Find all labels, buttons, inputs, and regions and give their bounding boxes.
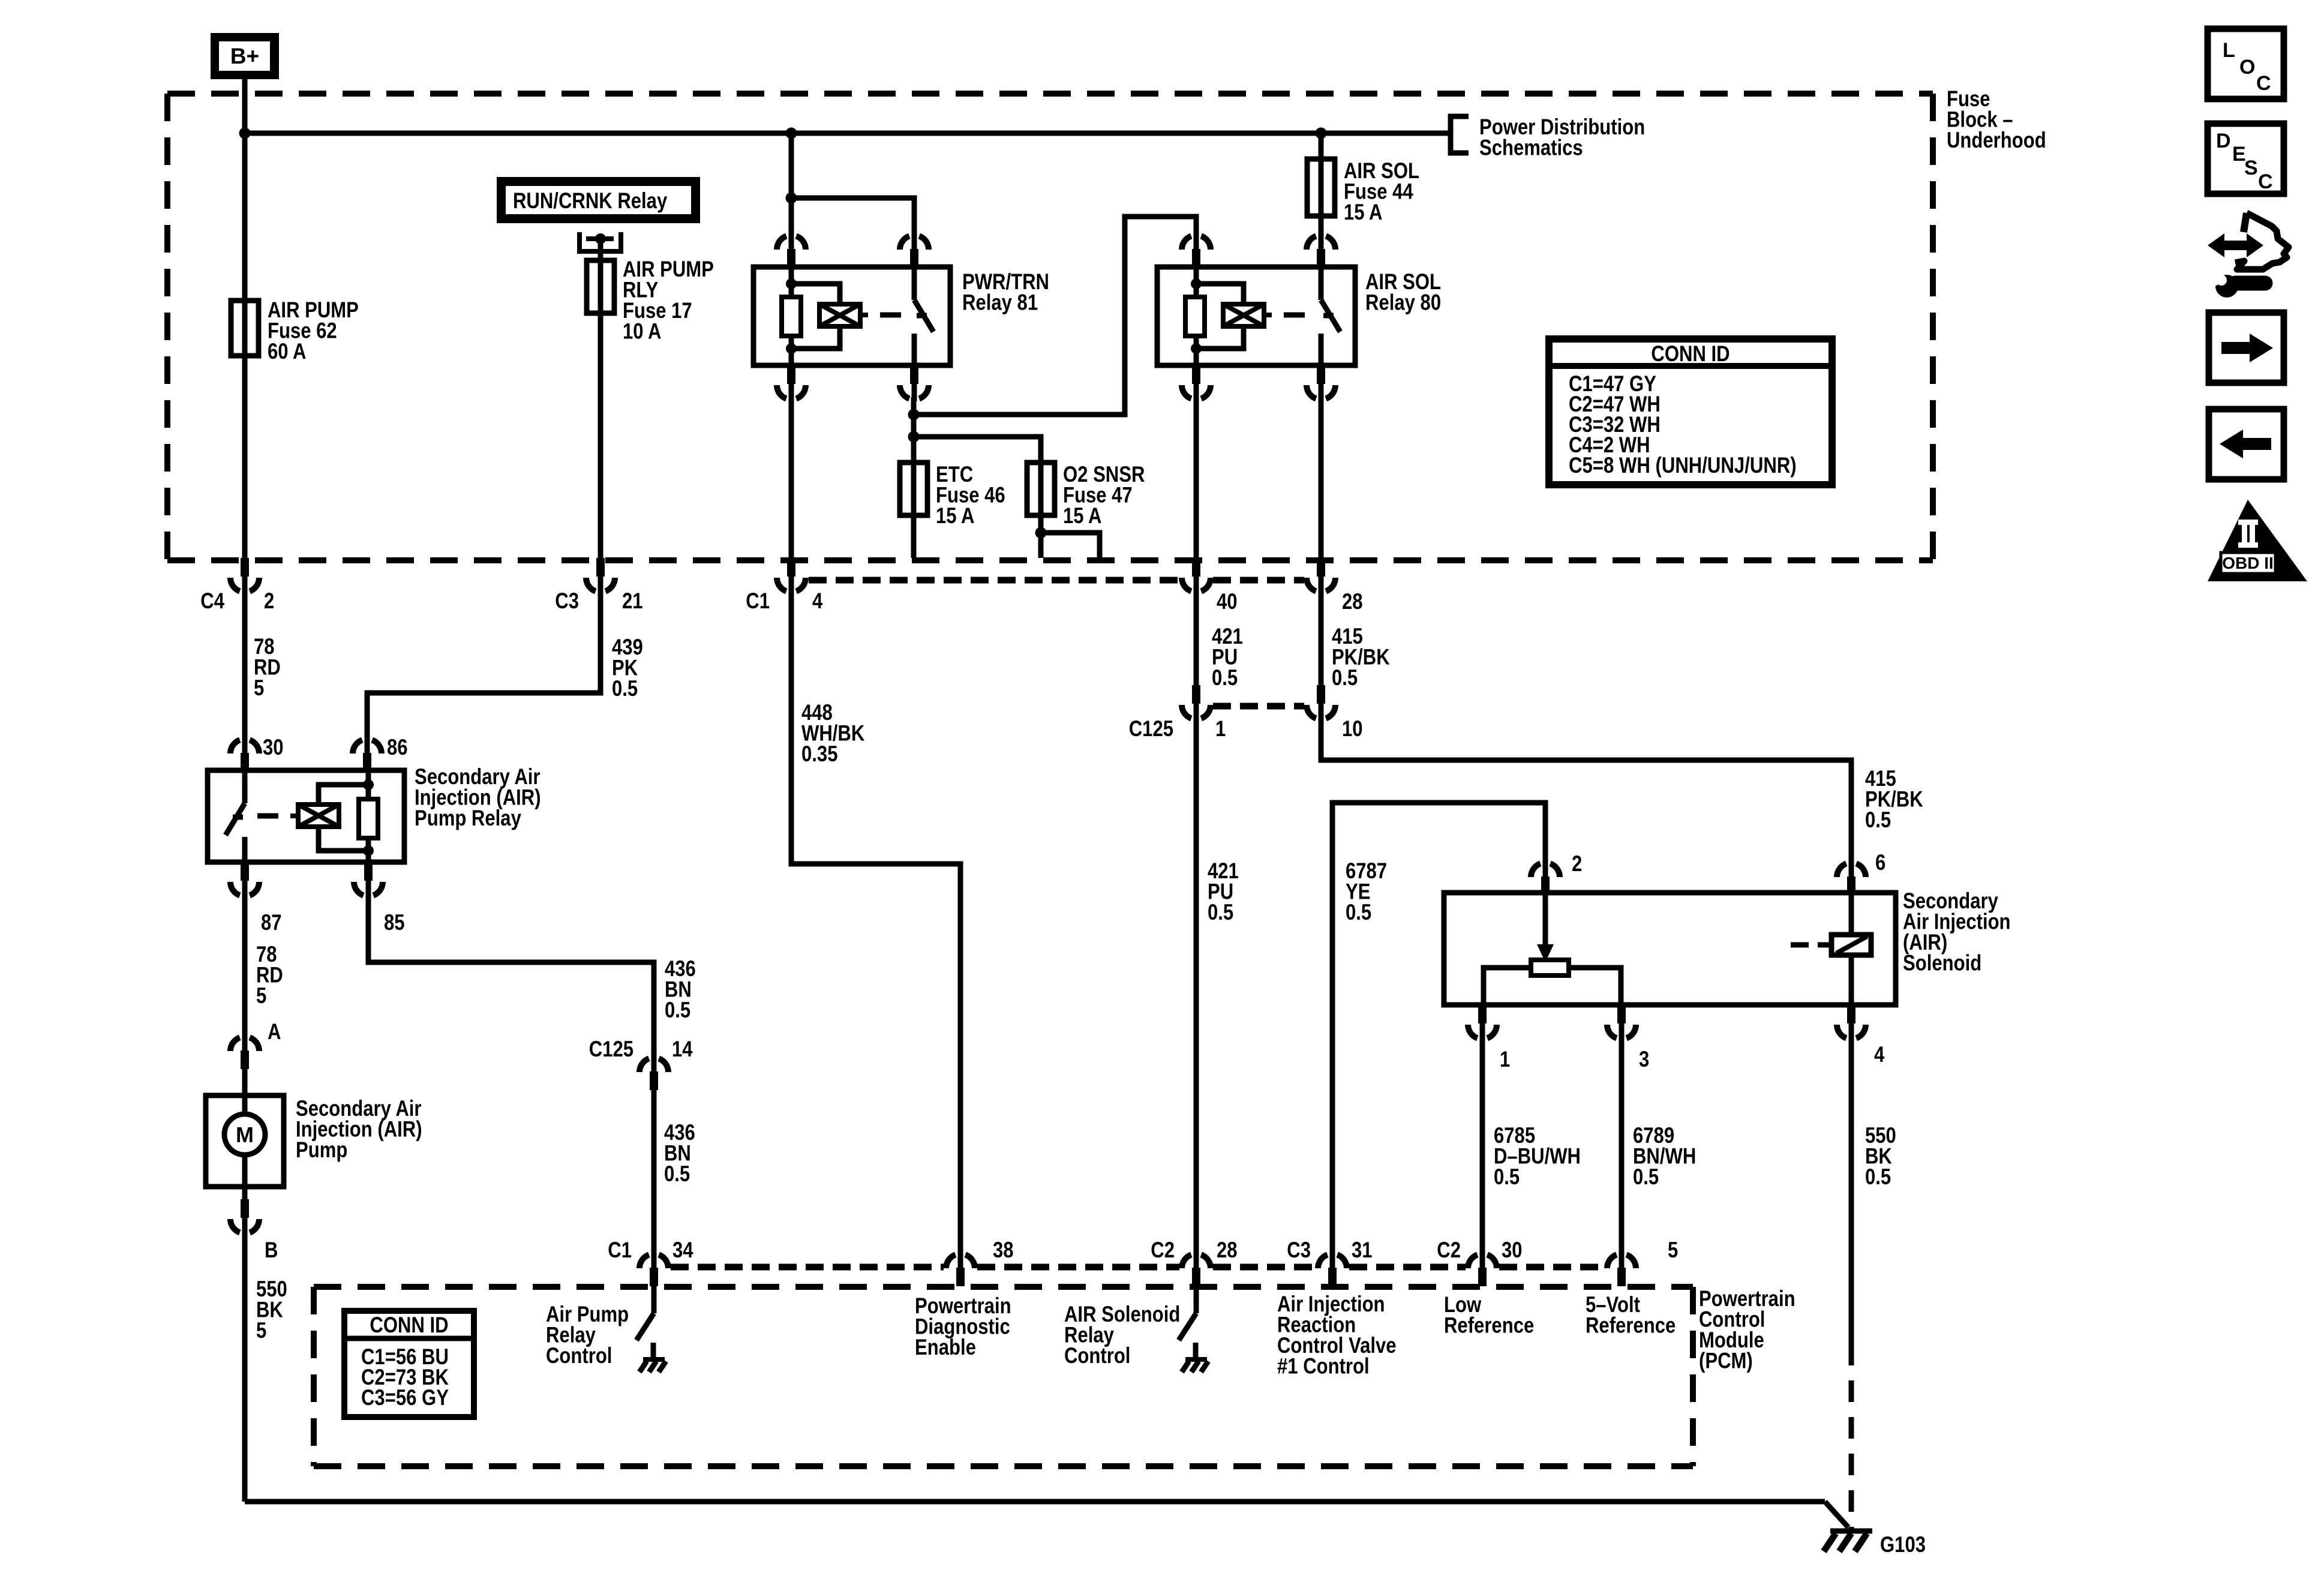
table CONN ID PCM bbox=[344, 1311, 474, 1417]
wire 448 WH/BK from C1-4 to PCM pin 38 bbox=[791, 590, 960, 1253]
svg-text:21: 21 bbox=[622, 589, 643, 614]
wire fuse 44 to relay 80 switch pin bbox=[1319, 216, 1324, 235]
connector C125 pin 1 bbox=[1182, 685, 1211, 721]
node B+ bbox=[211, 33, 279, 79]
fuse holder bracket bbox=[580, 232, 621, 251]
fuse F44 AIR SOL 15 A bbox=[1307, 159, 1335, 216]
pin relay81 coil bottom connector bbox=[777, 365, 806, 401]
wire pin 40 to C125-1 (421 PU) bbox=[1194, 590, 1199, 685]
wire solenoid pin 4 to G103 (550 BK) bbox=[1849, 1037, 1854, 1344]
svg-text:C1: C1 bbox=[608, 1238, 632, 1263]
svg-text:28: 28 bbox=[1217, 1238, 1238, 1263]
connector C4 pin 2 bbox=[230, 558, 259, 594]
svg-text:3: 3 bbox=[1639, 1047, 1649, 1072]
svg-text:S: S bbox=[2244, 157, 2258, 179]
wire branch fuse 47 step bbox=[1041, 533, 1100, 558]
coil relay80 (valve box with X) bbox=[1223, 304, 1272, 326]
icon back arrow box bbox=[2209, 409, 2284, 479]
connector solenoid pin 6 bbox=[1837, 861, 1866, 895]
node junction fuse 47 out bbox=[1035, 527, 1047, 539]
svg-text:38: 38 bbox=[993, 1238, 1014, 1263]
wire connector A to pump bbox=[242, 1068, 248, 1113]
banner RUN/CRNK Relay bbox=[497, 177, 700, 223]
connector C125 pin 10 bbox=[1307, 685, 1335, 721]
icon LOC box bbox=[2208, 29, 2284, 99]
svg-text:2: 2 bbox=[264, 589, 274, 614]
pin relay80 coil top connector bbox=[1182, 233, 1211, 268]
pump relay coil loop bbox=[319, 785, 368, 804]
connector C3 pin 21 bbox=[586, 558, 615, 594]
PCM internal switch pin 28 bbox=[1179, 1286, 1196, 1357]
svg-text:40: 40 bbox=[1217, 590, 1238, 614]
connector A pump bbox=[230, 1035, 259, 1069]
relay81 switch bbox=[914, 267, 933, 365]
relay U81 PWR/TRN box bbox=[753, 267, 950, 365]
connector solenoid pin 3 bbox=[1607, 1005, 1636, 1041]
svg-text:C: C bbox=[2258, 170, 2273, 193]
node junction B+ rail bbox=[239, 128, 251, 139]
node pump relay coil bottom junction bbox=[363, 845, 374, 856]
wire B+ down to fuse 62 and C4 connector bbox=[242, 79, 248, 558]
pin relay81 coil top connector bbox=[777, 233, 806, 268]
svg-text:D: D bbox=[2216, 130, 2231, 152]
svg-text:A: A bbox=[268, 1020, 281, 1044]
relay81 linkage dash bbox=[880, 313, 901, 318]
svg-text:30: 30 bbox=[1502, 1238, 1523, 1263]
ground G103 bbox=[1824, 1531, 1872, 1551]
connector PCM C2 pin 30 bbox=[1468, 1252, 1497, 1286]
svg-text:14: 14 bbox=[672, 1037, 693, 1062]
wire pump B to ground rail (550 BK) bbox=[242, 1231, 248, 1502]
wire branch to AIR SOL relay coil feed bbox=[914, 217, 1196, 415]
svg-text:C1=56 BUC2=73 BKC3=56 GY: C1=56 BUC2=73 BKC3=56 GY bbox=[361, 1345, 449, 1410]
connector PCM C3 pin 31 bbox=[1318, 1252, 1347, 1286]
svg-text:2: 2 bbox=[1572, 852, 1582, 876]
relay80 coil loop bbox=[1196, 284, 1244, 304]
wire main power rail bbox=[245, 131, 1449, 136]
pump relay switch contact tick bbox=[233, 815, 243, 820]
pin relay81 switch bottom connector bbox=[900, 365, 929, 401]
fuse F62 AIR PUMP 60 A bbox=[231, 301, 259, 356]
icon OBD II triangle bbox=[2208, 500, 2307, 581]
powertrain control module dashed outline bbox=[314, 1287, 1693, 1466]
ground PCM air pump relay control bbox=[639, 1359, 666, 1372]
svg-text:C: C bbox=[2256, 72, 2271, 95]
pin relay80 coil bottom connector bbox=[1182, 365, 1211, 401]
pin relay80 switch bottom connector bbox=[1307, 365, 1335, 401]
node junction switch out to AIR SOL relay bbox=[908, 409, 920, 421]
fuse F46 ETC 15 A bbox=[900, 463, 927, 515]
node junction rail to fuse 44 bbox=[1316, 128, 1327, 139]
node junction fuse 17 feed bbox=[595, 233, 606, 244]
node relay81 coil top junction bbox=[786, 278, 797, 289]
svg-text:L: L bbox=[2223, 39, 2235, 62]
svg-text:OBD II: OBD II bbox=[2222, 554, 2274, 572]
wire C3-21 to relay pin 86 (439 PK) bbox=[367, 590, 600, 739]
pin 30 connector bbox=[230, 737, 259, 772]
relay80 coil branch wire bbox=[1194, 267, 1199, 365]
svg-text:M: M bbox=[236, 1122, 254, 1147]
connector pin 40 bbox=[1182, 558, 1211, 594]
svg-text:86: 86 bbox=[387, 736, 408, 760]
node relay81 coil bottom junction bbox=[786, 343, 797, 354]
relay81 switch contact tick bbox=[917, 313, 927, 319]
connector solenoid pin 2 bbox=[1531, 861, 1560, 895]
relay80 switch contact tick bbox=[1323, 313, 1334, 319]
connector solenoid pin 1 bbox=[1468, 1005, 1497, 1041]
svg-text:85: 85 bbox=[384, 911, 405, 935]
svg-text:B: B bbox=[265, 1238, 278, 1263]
node pump relay coil top junction bbox=[363, 779, 374, 790]
svg-text:C4: C4 bbox=[200, 589, 224, 614]
relay U80 AIR SOL box bbox=[1157, 267, 1355, 365]
node junction relay 81 switch feed bbox=[786, 193, 797, 204]
solenoid wiper arrow bbox=[1537, 893, 1554, 962]
svg-text:C125: C125 bbox=[1129, 717, 1173, 742]
svg-text:1: 1 bbox=[1500, 1047, 1510, 1072]
pin relay81 switch top connector bbox=[900, 233, 929, 268]
svg-text:C3: C3 bbox=[555, 589, 579, 614]
PCM internal switch pin 34 bbox=[636, 1286, 654, 1357]
icon diagnostic wrench bbox=[2208, 213, 2289, 298]
connector C1 pin 4 bbox=[777, 558, 806, 594]
coil relay81 (valve box with X) bbox=[819, 304, 868, 326]
svg-text:34: 34 bbox=[672, 1238, 693, 1263]
fuse block - underhood dashed outline bbox=[167, 94, 1933, 560]
wire PCM pin 31 to solenoid pin 2 (6787 YE) bbox=[1332, 803, 1545, 1253]
resistor relay81 bbox=[782, 297, 801, 336]
connector PCM C1 pin 34 bbox=[639, 1252, 668, 1286]
node junction switch out to fuse 47 bbox=[908, 431, 920, 443]
icon DESC box bbox=[2208, 124, 2284, 194]
icon forward arrow box bbox=[2209, 313, 2284, 383]
resistor relay80 bbox=[1185, 297, 1205, 336]
connector pin 28 bbox=[1307, 558, 1335, 594]
wire C125-1 to PCM pin 28 (421 PU) bbox=[1194, 716, 1199, 1253]
dotted connector row PCM bbox=[671, 1264, 944, 1271]
solenoid coil element bbox=[1791, 893, 1871, 1005]
svg-text:28: 28 bbox=[1342, 590, 1363, 614]
dotted connector row C1/C2 fuse block bbox=[809, 577, 1179, 584]
pin 85 connector bbox=[354, 862, 383, 898]
svg-text:C3: C3 bbox=[1287, 1238, 1311, 1263]
wire pin 85 to C125-14 (436 BN) bbox=[368, 894, 654, 1057]
wire C4-2 to relay pin 30 bbox=[242, 590, 248, 739]
svg-text:1: 1 bbox=[1215, 717, 1226, 742]
svg-text:CONN ID: CONN ID bbox=[370, 1313, 448, 1338]
table CONN ID fuse block bbox=[1549, 339, 1832, 485]
dotted connector row C125 bbox=[1213, 703, 1304, 710]
fuse F17 AIR PUMP RLY 10 A bbox=[587, 260, 614, 313]
svg-text:O: O bbox=[2239, 56, 2255, 79]
wire ground rail to G103 bbox=[245, 1499, 1825, 1505]
pump relay switch bbox=[226, 770, 245, 862]
svg-text:30: 30 bbox=[263, 736, 284, 760]
wire fuse 17 to C3-21 bbox=[598, 313, 603, 558]
svg-text:C2: C2 bbox=[1437, 1238, 1461, 1263]
connector PCM pin 5 bbox=[1607, 1252, 1636, 1286]
wire solenoid pin 3 to PCM pin 5 (6789 BN/WH) bbox=[1619, 1037, 1625, 1253]
svg-text:87: 87 bbox=[261, 911, 282, 935]
connector PCM pin 38 bbox=[946, 1252, 975, 1286]
svg-text:5: 5 bbox=[1668, 1238, 1678, 1263]
resistor pump relay bbox=[359, 799, 378, 838]
solenoid potentiometer element bbox=[1484, 960, 1621, 1005]
svg-text:6: 6 bbox=[1875, 851, 1885, 875]
svg-text:CONN ID: CONN ID bbox=[1651, 342, 1730, 367]
svg-text:4: 4 bbox=[812, 589, 822, 614]
svg-text:C2: C2 bbox=[1151, 1238, 1175, 1263]
wire holder to fuse 17 bbox=[598, 239, 603, 260]
svg-text:B+: B+ bbox=[230, 44, 259, 68]
svg-text:G103: G103 bbox=[1880, 1533, 1926, 1557]
connector solenoid pin 4 bbox=[1837, 1005, 1866, 1041]
wire relay81 coil return to C1-4 bbox=[789, 397, 794, 558]
fuse F47 O2 SNSR 15 A bbox=[1027, 463, 1055, 515]
svg-text:10: 10 bbox=[1342, 717, 1363, 742]
svg-text:AIR SOLRelay 80: AIR SOLRelay 80 bbox=[1365, 270, 1441, 316]
svg-text:C1: C1 bbox=[746, 589, 770, 614]
wire relay80 coil return to pin 40 bbox=[1194, 397, 1199, 558]
relay80 switch bbox=[1321, 267, 1340, 365]
wire fuse 47 to fuse block edge bbox=[1038, 515, 1044, 558]
wire pin 87 to pump connector A (78 RD) bbox=[242, 894, 248, 1036]
solenoid L1 Secondary Air Injection (AIR) Solenoid box bbox=[1444, 893, 1896, 1005]
pump relay coil branch wire bbox=[366, 770, 371, 862]
wire rail to fuse 44 bbox=[1319, 133, 1324, 159]
relay K1 Secondary Air Injection (AIR) Pump Relay box bbox=[208, 770, 404, 862]
wire solenoid pin 1 to PCM pin 30 (6785 D-BU/WH) bbox=[1480, 1037, 1485, 1253]
off-page bracket to Power Distribution Schematics bbox=[1448, 114, 1469, 155]
wire diagonal into G103 bbox=[1825, 1502, 1848, 1527]
wire fuse 46 to fuse block edge bbox=[911, 515, 917, 558]
wire branch to fuse 47 bbox=[914, 437, 1041, 463]
pin 86 connector bbox=[353, 737, 382, 772]
pin 87 connector bbox=[230, 862, 259, 898]
connector C125 pin 14 bbox=[639, 1056, 668, 1090]
svg-text:31: 31 bbox=[1352, 1238, 1373, 1263]
node relay80 coil top junction bbox=[1191, 278, 1202, 289]
node relay80 coil bottom junction bbox=[1191, 343, 1202, 354]
wire C125-14 to PCM pin 34 (436 BN) bbox=[651, 1089, 657, 1253]
wire relay81 switch out to ETC fuse bbox=[911, 397, 917, 463]
relay80 linkage dash bbox=[1284, 313, 1305, 318]
wire branch to relay 81 switch pin bbox=[791, 198, 914, 235]
connector PCM C2 pin 28 bbox=[1182, 1252, 1211, 1286]
wire relay80 switch out to pin 28 bbox=[1319, 397, 1324, 558]
svg-text:4: 4 bbox=[1874, 1043, 1884, 1067]
pump relay linkage dash bbox=[257, 813, 278, 819]
relay81 coil branch wire bbox=[789, 267, 794, 365]
svg-text:C125: C125 bbox=[589, 1037, 633, 1062]
connector B pump bbox=[230, 1199, 259, 1235]
wire rail to relay 81 coil pin bbox=[789, 133, 794, 235]
svg-text:RUN/CRNK Relay: RUN/CRNK Relay bbox=[513, 189, 667, 214]
wire pin 28 to C125-10 (415 PK/BK) bbox=[1319, 590, 1324, 685]
ground PCM air solenoid relay control bbox=[1182, 1359, 1208, 1372]
node junction rail to PWR/TRN relay bbox=[786, 128, 797, 139]
svg-text:PWR/TRNRelay 81: PWR/TRNRelay 81 bbox=[962, 270, 1049, 316]
wire C125-10 to solenoid pin 6 (415 PK/BK) bbox=[1321, 716, 1851, 862]
coil pump relay (valve box with X) bbox=[290, 804, 339, 827]
pin relay80 switch top connector bbox=[1307, 233, 1335, 268]
relay81 coil loop bbox=[791, 284, 840, 304]
motor M Secondary Air Injection (AIR) Pump bbox=[206, 1095, 284, 1199]
